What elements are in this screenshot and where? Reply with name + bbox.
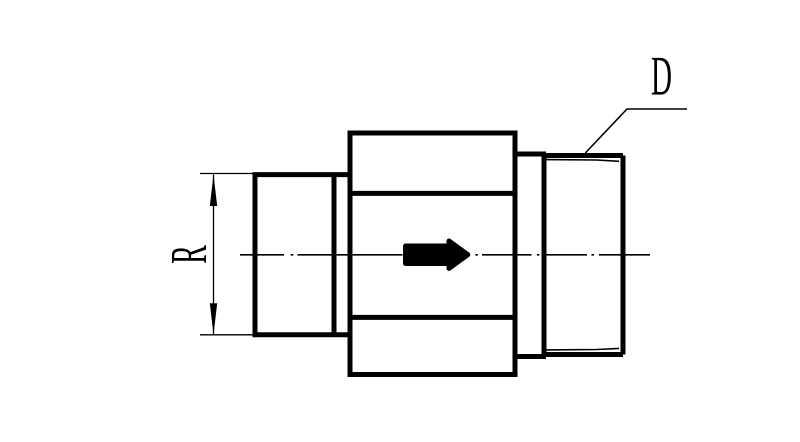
thread root line top (thin) bbox=[546, 160, 619, 162]
threaded end outline bbox=[544, 154, 623, 357]
flow direction arrow bbox=[406, 241, 468, 268]
body upper divider line bbox=[350, 191, 515, 196]
thread root line bottom (thin) bbox=[546, 348, 619, 350]
dimension arrowhead bottom bbox=[210, 303, 217, 335]
centerline (dash-dot axis) bbox=[240, 254, 650, 256]
left pipe inner flange line bbox=[332, 175, 337, 335]
left pipe end (union tail) outline bbox=[255, 172, 349, 337]
body lower divider line bbox=[350, 315, 515, 320]
valve body outline bbox=[350, 133, 515, 375]
leader line for D bbox=[585, 109, 687, 153]
dimension line R bbox=[213, 175, 215, 335]
label D bbox=[652, 58, 671, 95]
dimension extension line top bbox=[200, 173, 255, 175]
right neck top line bbox=[515, 152, 546, 157]
dimension arrowhead top bbox=[210, 175, 217, 207]
right neck bottom line bbox=[515, 354, 546, 359]
dimension extension line bottom bbox=[200, 334, 255, 336]
label R bbox=[172, 245, 206, 263]
